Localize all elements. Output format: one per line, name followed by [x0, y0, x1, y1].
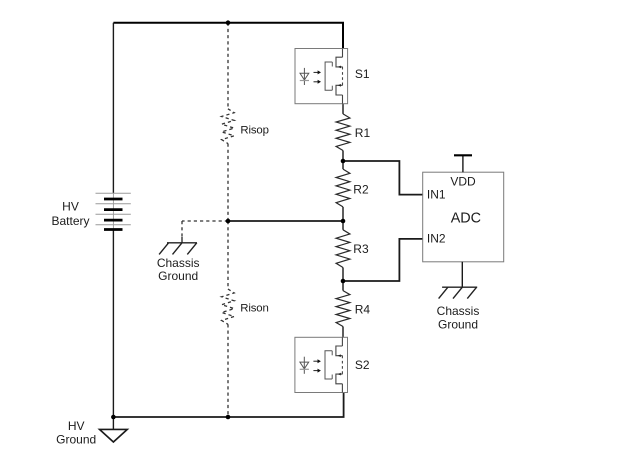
svg-text:IN1: IN1 [427, 187, 446, 201]
svg-text:R1: R1 [355, 126, 371, 140]
svg-text:R2: R2 [353, 183, 369, 197]
svg-text:Rison: Rison [240, 303, 268, 315]
svg-text:ADC: ADC [451, 210, 481, 226]
svg-text:R3: R3 [353, 242, 369, 256]
svg-text:S1: S1 [355, 67, 370, 81]
svg-text:VDD: VDD [450, 174, 476, 188]
svg-text:S2: S2 [355, 358, 370, 372]
svg-text:R4: R4 [355, 302, 371, 316]
svg-text:Battery: Battery [51, 214, 89, 228]
svg-text:Ground: Ground [56, 432, 96, 446]
svg-text:IN2: IN2 [427, 232, 446, 246]
svg-text:Chassis: Chassis [437, 304, 480, 318]
svg-text:Ground: Ground [158, 269, 198, 283]
svg-text:Risop: Risop [240, 125, 268, 137]
svg-text:Chassis: Chassis [157, 256, 200, 270]
svg-text:HV: HV [68, 419, 85, 433]
svg-text:HV: HV [62, 199, 79, 213]
svg-text:Ground: Ground [438, 318, 478, 332]
